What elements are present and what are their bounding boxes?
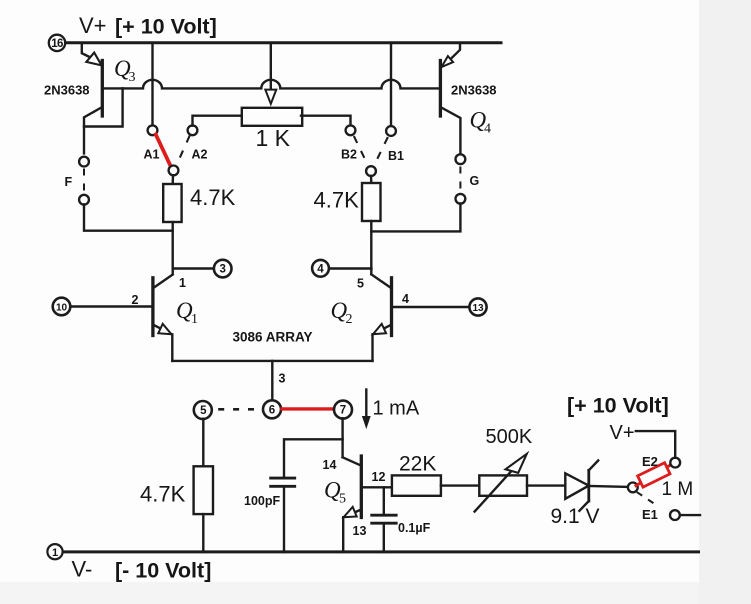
pin 1 terminal bbox=[47, 544, 62, 559]
wire F return bbox=[84, 204, 173, 230]
transistor Q2 emitter wire bbox=[376, 325, 392, 333]
wire pin5 to 4.7K bbox=[202, 419, 204, 467]
potentiometer 1K body bbox=[242, 108, 302, 126]
wire tail stem pin3 bbox=[271, 361, 273, 401]
scan right band bbox=[699, 0, 751, 604]
svg-text:[+ 10 Volt]: [+ 10 Volt] bbox=[567, 394, 669, 418]
pin 7 terminal bbox=[334, 401, 352, 419]
svg-text:100pF: 100pF bbox=[244, 494, 280, 508]
svg-text:F: F bbox=[65, 175, 73, 189]
svg-text:1 K: 1 K bbox=[256, 125, 291, 151]
transistor Q5 collector wire bbox=[343, 457, 362, 465]
current arrow 1mA bbox=[363, 390, 370, 428]
wire G return bbox=[371, 203, 460, 231]
terminal A2 top bbox=[188, 125, 198, 135]
transistor Q1 emitter wire bbox=[153, 325, 169, 333]
svg-text:0.1µF: 0.1µF bbox=[398, 521, 431, 535]
resistor 1M red body bbox=[638, 463, 670, 487]
terminal G top bbox=[456, 154, 466, 164]
transistor Q3 emitter arrow bbox=[86, 53, 101, 66]
resistor 1M red jumper lead bbox=[636, 464, 672, 485]
link B1 dashed bbox=[375, 138, 388, 164]
link A2 dashed bbox=[177, 137, 189, 165]
wire 100pF branch bbox=[284, 439, 343, 478]
svg-text:14: 14 bbox=[323, 458, 337, 472]
wire Q2 base bbox=[392, 306, 470, 308]
svg-text:[- 10 Volt]: [- 10 Volt] bbox=[115, 559, 211, 583]
svg-text:E2: E2 bbox=[642, 454, 658, 469]
svg-text:6: 6 bbox=[269, 404, 275, 416]
svg-text:2: 2 bbox=[132, 293, 139, 307]
potentiometer 1K wiper wire bbox=[270, 44, 272, 90]
svg-text:G: G bbox=[470, 174, 480, 188]
svg-text:1: 1 bbox=[52, 547, 58, 559]
wire 0.1uF to rail bbox=[383, 523, 385, 552]
terminal G bottom bbox=[456, 194, 466, 204]
svg-text:500K: 500K bbox=[486, 426, 533, 448]
terminal B1 top bbox=[386, 126, 396, 136]
zener diode D1 triangle bbox=[565, 473, 589, 499]
transistor Q2 emitter arrow bbox=[373, 324, 386, 335]
wire 4.7K left bottom bbox=[171, 222, 173, 274]
link B2 dashed bbox=[354, 137, 367, 164]
wire B1 from rail bbox=[390, 44, 392, 126]
potentiometer 1K wiper arrow bbox=[265, 90, 276, 104]
wire pot left lead bbox=[193, 116, 242, 126]
svg-text:3: 3 bbox=[129, 70, 136, 85]
wire Q1 emitter drop bbox=[171, 334, 173, 361]
terminal F bottom bbox=[79, 195, 89, 205]
link E dashed bbox=[638, 493, 656, 505]
svg-text:4: 4 bbox=[402, 292, 409, 306]
terminal E2 top bbox=[670, 458, 680, 468]
wire zener to E2 bbox=[589, 486, 628, 487]
svg-text:A1: A1 bbox=[144, 148, 160, 162]
svg-text:9.1 V: 9.1 V bbox=[551, 505, 600, 528]
transistor Q5 emitter wire bbox=[347, 510, 362, 516]
svg-text:4.7K: 4.7K bbox=[140, 482, 186, 507]
terminal E2 bottom bbox=[628, 483, 638, 493]
resistor 4.7K left top lead bbox=[171, 175, 174, 184]
pin 16 terminal bbox=[49, 35, 65, 51]
wire E1 stub bbox=[680, 514, 700, 516]
wire Q3 base-collector tie bbox=[84, 88, 123, 126]
terminal A1 top bbox=[148, 125, 158, 135]
svg-text:16: 16 bbox=[51, 38, 63, 50]
svg-text:5: 5 bbox=[339, 492, 346, 507]
svg-text:4.7K: 4.7K bbox=[314, 188, 360, 213]
link A1 red jumper bbox=[156, 135, 171, 167]
svg-text:1: 1 bbox=[191, 312, 198, 327]
wire pin3 bbox=[173, 267, 214, 269]
wire pin7 down bbox=[341, 418, 343, 457]
svg-text:2: 2 bbox=[346, 312, 353, 327]
transistor Q4 bar bbox=[439, 61, 442, 117]
wire 4.7K right bottom bbox=[370, 221, 372, 274]
svg-text:V+: V+ bbox=[79, 13, 107, 38]
wire E2 to V+ bbox=[636, 431, 675, 458]
terminal F top bbox=[79, 157, 89, 167]
resistor 4.7K left body bbox=[163, 184, 181, 222]
svg-text:13: 13 bbox=[472, 303, 484, 314]
transistor Q2 collector wire bbox=[372, 275, 391, 288]
resistor 4.7K bottom body bbox=[194, 466, 213, 514]
svg-text:B1: B1 bbox=[388, 149, 404, 163]
terminal B2 top bbox=[346, 125, 356, 135]
wire Q1 base bbox=[71, 305, 153, 307]
link F dashed bbox=[83, 170, 85, 194]
svg-text:1 M: 1 M bbox=[662, 479, 694, 500]
svg-text:B2: B2 bbox=[341, 148, 357, 162]
zener diode D1 cathode bar bbox=[579, 461, 598, 511]
transistor Q2 bar bbox=[390, 278, 393, 336]
wire 0.1uF branch bbox=[383, 487, 385, 515]
transistor Q3 emitter wire bbox=[82, 44, 100, 62]
transistor Q4 emitter arrow bbox=[442, 56, 454, 67]
transistor Q1 bar bbox=[151, 278, 154, 336]
terminal B top (above right 4.7K) bbox=[366, 166, 376, 176]
svg-text:13: 13 bbox=[353, 524, 367, 538]
pin 5 terminal bbox=[194, 401, 212, 419]
svg-text:A2: A2 bbox=[192, 148, 208, 162]
wire pin4 bbox=[329, 267, 372, 269]
resistor 4.7K right top lead bbox=[370, 176, 373, 183]
wire Q5 emitter to rail bbox=[342, 517, 344, 552]
pin 10 terminal bbox=[53, 298, 71, 316]
pin 6 terminal bbox=[263, 400, 281, 418]
transistor Q1 emitter arrow bbox=[158, 324, 171, 335]
link 5-6 dashed bbox=[220, 408, 259, 411]
svg-text:5: 5 bbox=[357, 277, 364, 291]
transistor Q4 emitter wire bbox=[444, 44, 460, 65]
scan bottom band bbox=[0, 582, 751, 604]
transistor Q5 bar bbox=[360, 456, 363, 518]
wire pot right lead bbox=[301, 116, 351, 126]
svg-text:1: 1 bbox=[179, 276, 186, 290]
svg-text:3: 3 bbox=[279, 372, 286, 386]
pin 13 terminal bbox=[469, 298, 486, 315]
wire A1 from rail bbox=[151, 44, 153, 125]
power rail V+ top bbox=[64, 41, 501, 44]
transistor Q3 collector wire bbox=[84, 107, 102, 153]
svg-text:5: 5 bbox=[200, 405, 207, 417]
resistor 4.7K right body bbox=[362, 183, 381, 221]
resistor 500K adjust arrow bbox=[475, 454, 527, 512]
svg-text:E1: E1 bbox=[642, 507, 658, 522]
wire 22K to 500K bbox=[441, 484, 479, 486]
svg-text:4.7K: 4.7K bbox=[190, 185, 236, 210]
svg-text:[+ 10 Volt]: [+ 10 Volt] bbox=[115, 15, 217, 39]
svg-text:10: 10 bbox=[56, 303, 68, 314]
svg-text:3: 3 bbox=[219, 264, 225, 276]
resistor 22K body bbox=[392, 475, 441, 495]
svg-text:1 mA: 1 mA bbox=[373, 398, 420, 420]
wire emitter tail bbox=[172, 360, 372, 362]
capacitor 0.1uF plates bbox=[372, 515, 397, 523]
capacitor 100pF plates bbox=[271, 478, 295, 486]
wire 4.7K bottom to rail bbox=[202, 514, 204, 552]
svg-text:V-: V- bbox=[72, 557, 93, 582]
pin 3 terminal bbox=[214, 260, 232, 278]
link G dashed bbox=[459, 168, 461, 193]
wire Q2 emitter drop bbox=[371, 334, 373, 361]
svg-text:3086 ARRAY: 3086 ARRAY bbox=[233, 330, 313, 345]
svg-text:22K: 22K bbox=[399, 453, 436, 476]
link 6-7 red jumper bbox=[282, 407, 334, 410]
transistor Q5 emitter arrow bbox=[344, 507, 357, 517]
wire Q3 base to Q4 base with humps bbox=[102, 80, 440, 89]
terminal E1 bbox=[670, 510, 680, 520]
transistor Q1 collector wire bbox=[154, 275, 173, 288]
terminal A1 bottom bbox=[169, 166, 179, 176]
svg-text:12: 12 bbox=[372, 470, 386, 484]
transistor Q4 collector wire bbox=[440, 107, 460, 155]
pin 4 terminal bbox=[312, 260, 329, 277]
svg-text:2N3638: 2N3638 bbox=[44, 83, 90, 98]
svg-text:4: 4 bbox=[317, 263, 324, 275]
wire 500K to zener bbox=[527, 484, 565, 486]
wire 100pF to rail bbox=[283, 486, 285, 552]
svg-text:7: 7 bbox=[340, 405, 346, 417]
transistor Q3 bar bbox=[101, 61, 104, 117]
wire Q5 base pin12 bbox=[361, 486, 392, 488]
svg-text:4: 4 bbox=[484, 122, 491, 137]
resistor 500K body bbox=[479, 475, 527, 495]
svg-text:2N3638: 2N3638 bbox=[451, 83, 497, 98]
svg-text:V+: V+ bbox=[610, 422, 635, 444]
bottom rail V- bbox=[62, 550, 698, 553]
